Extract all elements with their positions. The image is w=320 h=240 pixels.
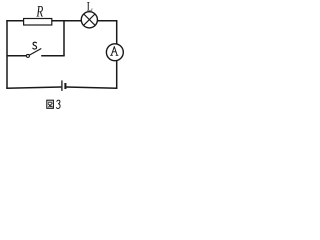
svg-text:R: R	[36, 3, 44, 20]
svg-text:L: L	[87, 0, 93, 14]
